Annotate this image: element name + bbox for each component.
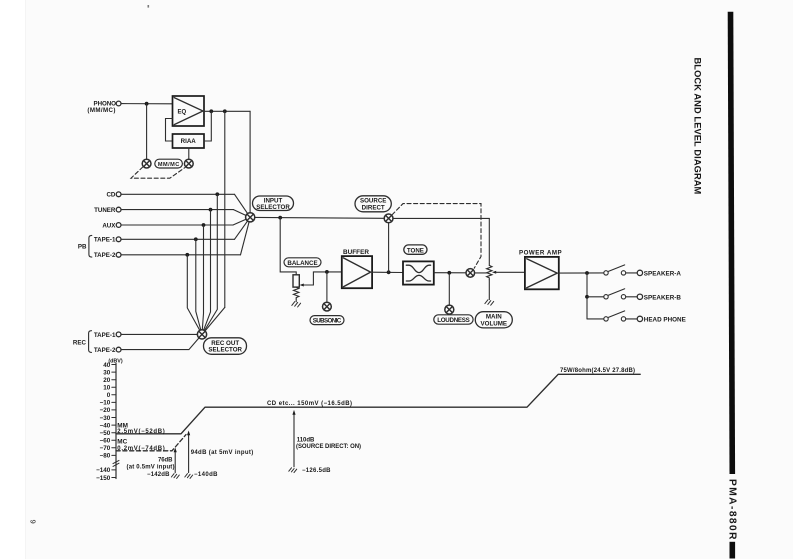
wire TAPE-1 rec: [121, 333, 197, 335]
junction TAPE-1: [194, 237, 198, 241]
wire EQ feedback left: [166, 119, 173, 142]
wire down to subsonic switch: [326, 272, 328, 302]
svg-text:0.2mV(−74dB): 0.2mV(−74dB): [117, 446, 165, 452]
volume wiper arrow: [492, 271, 496, 274]
switch head phone: [604, 317, 608, 321]
label TONE: [404, 245, 427, 254]
potentiometer MAIN VOLUME: [487, 265, 492, 279]
wire up to source direct switch: [388, 223, 390, 272]
ground (main volume): [485, 300, 494, 305]
wire source direct to volume top: [393, 217, 489, 219]
arrow 94dB gain: [188, 434, 190, 472]
svg-text:10: 10: [103, 385, 111, 392]
switch tone defeat: [466, 269, 475, 278]
svg-text:−40: −40: [100, 422, 111, 429]
ground (-140dB): [185, 474, 193, 479]
svg-text:−60: −60: [100, 438, 111, 445]
wire TAPE-2 to selector: [241, 222, 250, 255]
label MM/MC: [155, 159, 183, 168]
junction EQ out B: [223, 109, 227, 113]
junction AUX: [202, 223, 206, 227]
wire TUNER: [121, 209, 233, 211]
wire TAPE-1 to selector: [235, 221, 248, 239]
junction buffer out: [387, 270, 391, 274]
svg-text:TONE: TONE: [407, 247, 424, 254]
junction speaker B: [585, 295, 589, 299]
wire to head phone terminal: [626, 318, 637, 320]
label INPUT SELECTOR: [253, 196, 294, 211]
wire TAPE-2 drop to rec out: [187, 255, 200, 331]
svg-text:110dB: 110dB: [297, 438, 315, 444]
junction speaker A: [585, 271, 589, 275]
svg-text:BLOCK AND LEVEL DIAGRAM: BLOCK AND LEVEL DIAGRAM: [692, 58, 702, 195]
svg-text:BALANCE: BALANCE: [287, 260, 317, 267]
svg-text:BUFFER: BUFFER: [343, 249, 369, 256]
switch speaker A: [604, 271, 608, 275]
svg-text:−50: −50: [100, 430, 111, 437]
wire TUNER drop to rec out: [204, 210, 211, 331]
axis break: [113, 460, 119, 466]
wire AUX: [121, 224, 233, 226]
sidebar black bar bottom: [730, 542, 736, 559]
wire EQ out to RIAA right: [204, 111, 211, 141]
op-amp EQ box: [173, 96, 205, 126]
svg-text:−140: −140: [96, 467, 111, 474]
wire switch to volume: [475, 272, 487, 274]
svg-text:TAPE-2: TAPE-2: [94, 347, 116, 354]
tone control block: [403, 261, 434, 284]
svg-text:20: 20: [103, 377, 111, 384]
junction selector out: [278, 216, 282, 220]
label BALANCE: [284, 258, 321, 267]
svg-text:9: 9: [29, 520, 38, 524]
wire AUX drop to rec out: [202, 225, 203, 330]
junction CD: [215, 192, 219, 196]
svg-text:−126.5dB: −126.5dB: [302, 468, 331, 474]
svg-text:REC: REC: [73, 339, 87, 346]
switch LOUDNESS: [445, 305, 454, 314]
switch MC (phono right): [184, 159, 193, 168]
wire RIAA bottom to MC switch: [188, 148, 190, 159]
ground (-142dB): [171, 474, 179, 479]
svg-text:−20: −20: [100, 407, 111, 414]
svg-text:2.5mV(−52dB): 2.5mV(−52dB): [117, 429, 165, 435]
wire EQ output: [204, 110, 250, 112]
sidebar black bar top: [728, 12, 735, 474]
wire output bus down: [586, 273, 588, 319]
wire volume bottom to ground: [488, 280, 490, 300]
svg-text:0: 0: [107, 392, 111, 399]
terminal HEAD PHONE: [637, 316, 642, 321]
ground (-126.5dB): [289, 468, 297, 473]
svg-text:(SOURCE DIRECT: ON): (SOURCE DIRECT: ON): [296, 444, 361, 450]
svg-text:75W/8ohm(24.5V 27.8dB): 75W/8ohm(24.5V 27.8dB): [560, 368, 635, 374]
wire TAPE-2 rec: [121, 338, 199, 350]
svg-text:−30: −30: [100, 415, 111, 422]
speck: [148, 5, 150, 8]
RIAA block: [173, 134, 205, 148]
svg-text:POWER AMP: POWER AMP: [519, 249, 562, 256]
wire to speaker B terminal: [626, 296, 637, 298]
wire CD to selector: [235, 194, 248, 213]
svg-text:TUNER: TUNER: [94, 207, 116, 214]
switch SUBSONIC: [323, 302, 332, 311]
label MAIN VOLUME: [475, 312, 512, 328]
terminal SPEAKER-A: [637, 270, 642, 275]
svg-text:HEAD PHONE: HEAD PHONE: [644, 316, 686, 323]
junction phono node: [145, 102, 149, 106]
svg-text:(at 0.5mV input): (at 0.5mV input): [127, 464, 175, 470]
svg-text:94dB (at 5mV input): 94dB (at 5mV input): [191, 450, 254, 456]
wire volume wiper to power amp: [496, 271, 525, 273]
label SOURCE DIRECT: [355, 196, 391, 212]
svg-text:PB: PB: [78, 244, 87, 251]
junction TUNER: [209, 208, 213, 212]
wire source direct down to volume pot: [488, 218, 490, 265]
wire TAPE-1 drop to rec out: [196, 239, 201, 330]
svg-text:40: 40: [103, 362, 111, 369]
wire phono to input selector (vertical): [249, 111, 251, 212]
wire AUX to selector: [233, 219, 246, 225]
wire balance wiper to main path: [303, 272, 342, 285]
switch MM (phono left): [142, 159, 151, 168]
label SUBSONIC: [310, 316, 344, 325]
svg-text:−140dB: −140dB: [194, 472, 218, 478]
svg-text:−142dB: −142dB: [147, 472, 170, 478]
svg-text:MM/MC: MM/MC: [158, 162, 180, 168]
svg-text:−80: −80: [100, 453, 111, 460]
junction loudness node: [447, 271, 451, 275]
wire to speaker A terminal: [626, 272, 637, 274]
svg-text:−70: −70: [100, 445, 111, 452]
svg-text:SPEAKER-A: SPEAKER-A: [644, 270, 682, 277]
svg-text:TAPE-1: TAPE-1: [94, 332, 116, 339]
svg-text:RIAA: RIAA: [181, 138, 197, 145]
wire CD: [121, 193, 234, 195]
level curve MM to output: [116, 374, 640, 434]
ground (balance): [292, 302, 301, 307]
svg-text:76dB: 76dB: [158, 458, 173, 464]
switch REC OUT SELECTOR: [197, 330, 206, 339]
wire TAPE-2: [121, 254, 240, 256]
wire TAPE-1: [121, 238, 234, 240]
svg-text:MC: MC: [117, 439, 127, 446]
wire phono drop to rec out: [205, 307, 225, 331]
dashed linkage source direct: [392, 204, 481, 269]
wire buffer out to tone: [372, 271, 403, 273]
svg-text:−150: −150: [96, 475, 111, 482]
junction TAPE-2: [185, 253, 189, 257]
arrow 110dB gain: [293, 414, 295, 467]
wire CD drop to rec out: [204, 194, 217, 330]
potentiometer balance body: [293, 275, 299, 287]
svg-text:SUBSONIC: SUBSONIC: [313, 318, 342, 325]
svg-text:CD etc... 150mV (−16.5dB): CD etc... 150mV (−16.5dB): [267, 401, 352, 407]
svg-text:VOLUME: VOLUME: [481, 320, 507, 327]
svg-text:−10: −10: [100, 400, 111, 407]
wire phono junction down to MM switch: [146, 104, 148, 160]
wire down to balance: [280, 218, 296, 275]
balance wiper arrow: [300, 284, 304, 287]
wire phono to EQ: [121, 103, 172, 105]
svg-text:LOUDNESS: LOUDNESS: [437, 317, 470, 324]
svg-text:TAPE-1: TAPE-1: [94, 237, 116, 244]
wire phono to rec-out selector (vertical): [224, 111, 226, 307]
wire tone out: [434, 272, 466, 274]
svg-text:CD: CD: [106, 192, 115, 199]
svg-text:SPEAKER-B: SPEAKER-B: [644, 294, 682, 301]
junction EQ out A: [209, 109, 213, 113]
svg-text:EQ: EQ: [178, 110, 187, 116]
wire TUNER to selector: [234, 210, 247, 216]
svg-text:SELECTOR: SELECTOR: [208, 347, 242, 354]
resistor below balance pot: [294, 287, 299, 299]
junction subsonic node: [325, 270, 329, 274]
label LOUDNESS: [434, 315, 473, 324]
svg-text:30: 30: [103, 369, 111, 376]
wire to speaker B switch: [587, 296, 604, 298]
svg-text:(MM/MC): (MM/MC): [87, 107, 115, 114]
wire power amp output: [559, 272, 604, 274]
switch speaker B: [604, 295, 608, 299]
axis ticks and labels: [112, 365, 116, 478]
svg-text:SELECTOR: SELECTOR: [256, 204, 290, 211]
level curve MC (dashed): [116, 435, 186, 451]
svg-text:TAPE-2: TAPE-2: [94, 252, 116, 259]
switch SOURCE DIRECT: [384, 214, 393, 223]
wire resistor to ground: [295, 299, 297, 302]
wire selector output: [255, 216, 384, 219]
INPUT SELECTOR switch: [246, 213, 255, 222]
svg-text:DIRECT: DIRECT: [362, 204, 385, 211]
dashed switch linkage MM/MC: [131, 167, 185, 178]
arrow 76dB gain: [174, 451, 176, 472]
label REC OUT SELECTOR: [204, 338, 247, 355]
terminal SPEAKER-B: [637, 294, 642, 299]
svg-text:AUX: AUX: [102, 222, 116, 229]
wire down to loudness switch: [448, 273, 450, 305]
wire to head phone switch: [587, 318, 604, 320]
